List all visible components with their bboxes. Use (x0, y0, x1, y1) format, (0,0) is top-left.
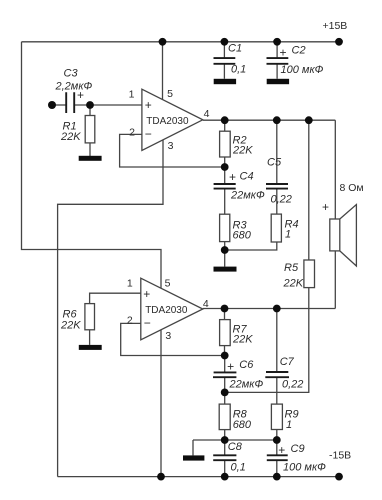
wire C4 leads (224, 167, 226, 214)
wire C7 leads (276, 309, 278, 405)
resistor R8 (219, 404, 252, 431)
svg-text:C1: C1 (228, 43, 242, 55)
svg-text:+: + (229, 170, 236, 184)
node C2 on rail (273, 38, 281, 46)
resistor R7 (220, 320, 254, 346)
ground below C2 (267, 79, 289, 84)
node C8 on rail (221, 473, 229, 481)
svg-text:C6: C6 (239, 359, 254, 371)
wire R1 leads (89, 105, 91, 156)
svg-text:−: − (145, 127, 152, 141)
wire +15V top rail (22, 41, 340, 43)
wire +15V left route to pin 5 of U2 (22, 42, 162, 289)
terminal +15V (323, 20, 348, 46)
svg-text:R5: R5 (284, 262, 299, 274)
resistor R9 (271, 404, 298, 431)
node R9/C9 (273, 436, 281, 444)
svg-text:5: 5 (167, 88, 173, 100)
svg-text:1: 1 (127, 278, 133, 290)
svg-text:1: 1 (129, 89, 135, 101)
resistor R4 (271, 214, 298, 242)
node C3/R1 (86, 101, 94, 109)
svg-text:C7: C7 (280, 356, 295, 368)
wire R5 top lead (308, 120, 310, 260)
node U2 output / R7 (221, 305, 229, 313)
wire C9 leads (276, 440, 278, 477)
svg-text:+: + (322, 200, 329, 214)
capacitor C2 (267, 45, 324, 77)
wire input terminal to C3 (52, 104, 66, 106)
wire C1 leads (223, 42, 225, 79)
wire pin 2 of U1 feedback to node (120, 134, 225, 167)
svg-text:22K: 22K (232, 334, 253, 346)
wire ground node row (193, 439, 277, 441)
svg-text:+15В: +15В (323, 20, 348, 32)
svg-text:3: 3 (168, 140, 174, 152)
wire speaker negative lead (334, 251, 336, 309)
resistor R1 (60, 116, 95, 144)
svg-text:1: 1 (286, 419, 292, 431)
speaker 8 Ohm (322, 182, 364, 266)
terminal input (48, 101, 56, 109)
ground below R1 (79, 156, 102, 161)
capacitor C5 (266, 156, 292, 205)
ground below R3 (214, 267, 237, 272)
ground below C1 (214, 79, 236, 84)
svg-text:+: + (278, 443, 285, 457)
wire U1 output row (203, 119, 335, 121)
capacitor C4 (214, 170, 265, 201)
node C9 on rail (273, 473, 281, 481)
svg-text:100 мкФ: 100 мкФ (281, 64, 324, 76)
svg-text:2: 2 (129, 127, 135, 139)
wire ground stem at node row (192, 440, 194, 455)
wire R9 bottom lead (276, 430, 278, 440)
node feedback U2 (221, 352, 229, 360)
wire C2 leads (276, 42, 278, 79)
op-amp U2 TDA2030 (127, 277, 209, 342)
node C1 on rail (221, 38, 229, 46)
svg-text:C9: C9 (291, 443, 305, 455)
resistor R6 (60, 304, 95, 332)
svg-text:C4: C4 (240, 170, 254, 182)
wire R6 bottom lead (89, 330, 91, 345)
svg-text:22K: 22K (60, 131, 81, 143)
svg-text:22мкФ: 22мкФ (230, 189, 265, 201)
wire C8 leads (224, 440, 226, 477)
svg-text:680: 680 (233, 230, 252, 242)
svg-text:8 Ом: 8 Ом (340, 182, 364, 194)
op-amp U1 TDA2030 (129, 88, 210, 152)
svg-text:2,2мкФ: 2,2мкФ (55, 81, 93, 93)
svg-text:C2: C2 (292, 45, 306, 57)
node C6/R8/R5 (221, 389, 229, 397)
resistor R3 (220, 214, 252, 241)
wire C5 leads (276, 120, 278, 214)
wire -15V bottom rail (58, 476, 339, 478)
wire R2 leads (224, 120, 226, 167)
svg-text:C8: C8 (228, 441, 243, 453)
wire ground stem below R3 (224, 250, 226, 267)
wire pin 2 of U2 feedback to node (121, 323, 225, 355)
capacitor C8 (213, 441, 246, 473)
svg-text:0,1: 0,1 (231, 64, 246, 76)
wire R7 leads (224, 309, 226, 356)
svg-text:-15В: -15В (329, 450, 351, 462)
ground at node row (183, 455, 204, 460)
svg-text:100 мкФ: 100 мкФ (283, 461, 326, 473)
node U1 output / R2 (221, 116, 229, 124)
svg-text:+: + (227, 359, 234, 373)
svg-text:2: 2 (127, 315, 133, 327)
ground below R6 (79, 345, 102, 350)
resistor R2 (220, 131, 254, 157)
node feedback U1 (221, 163, 229, 171)
svg-text:4: 4 (204, 108, 210, 120)
svg-text:4: 4 (203, 298, 209, 310)
capacitor C6 (213, 359, 263, 390)
svg-text:22K: 22K (232, 145, 253, 157)
wire R3-R4 bottom link (225, 242, 277, 250)
svg-text:0,1: 0,1 (231, 461, 246, 473)
wire R3 bottom lead (224, 242, 226, 250)
svg-text:0,22: 0,22 (271, 194, 292, 206)
wire R5 bottom lead to C6/R8 node (225, 288, 309, 393)
svg-text:680: 680 (233, 419, 252, 431)
wire C6 leads (224, 356, 226, 405)
node R8/C8 (221, 436, 229, 444)
svg-text:1: 1 (285, 229, 291, 241)
svg-text:TDA2030: TDA2030 (145, 305, 188, 316)
svg-text:TDA2030: TDA2030 (146, 116, 189, 127)
node C7 top (273, 305, 281, 313)
svg-text:3: 3 (165, 330, 171, 342)
wire U2 output row (203, 308, 335, 310)
terminal -15V (329, 450, 351, 481)
svg-text:5: 5 (165, 277, 171, 289)
svg-text:0,22: 0,22 (282, 379, 303, 391)
capacitor C3 (55, 68, 93, 114)
node pin5 U1 on rail (159, 38, 167, 46)
wire C3 to pin 1 of U1 (75, 104, 142, 106)
resistor R5 (283, 260, 315, 290)
wire pin 5 of U1 to +15V rail (162, 42, 164, 100)
node pin3 U2 on rail (157, 473, 165, 481)
wire R8 bottom lead (224, 430, 226, 440)
svg-text:−: − (144, 316, 151, 330)
node C5 top (273, 116, 281, 124)
node R3/R4 bottom (221, 246, 229, 254)
wire speaker positive lead (334, 120, 336, 219)
svg-text:C5: C5 (267, 156, 282, 168)
capacitor C7 (265, 356, 303, 391)
capacitor C9 (267, 443, 326, 474)
svg-text:C3: C3 (64, 68, 79, 80)
node R5 top (305, 116, 313, 124)
capacitor C1 (214, 43, 247, 76)
svg-text:+: + (77, 88, 84, 102)
wire pin 1 of U2 to R6 (90, 293, 141, 303)
svg-text:+: + (145, 98, 152, 112)
svg-text:22K: 22K (283, 278, 304, 290)
svg-text:+: + (279, 46, 286, 60)
wire pin 3 of U2 to -15V rail (160, 330, 162, 477)
svg-text:22K: 22K (60, 320, 81, 332)
svg-text:22мкФ: 22мкФ (229, 378, 264, 390)
svg-text:+: + (143, 287, 150, 301)
wire pin 3 of U1 routed to -15V rail (58, 140, 163, 477)
